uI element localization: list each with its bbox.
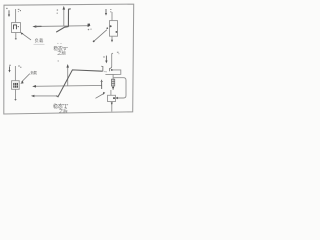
svg-text:负载: 负载 <box>35 37 45 44</box>
svg-text:之前: 之前 <box>57 50 66 57</box>
svg-text:之后: 之后 <box>59 108 68 115</box>
svg-text:负载: 负载 <box>30 70 37 75</box>
